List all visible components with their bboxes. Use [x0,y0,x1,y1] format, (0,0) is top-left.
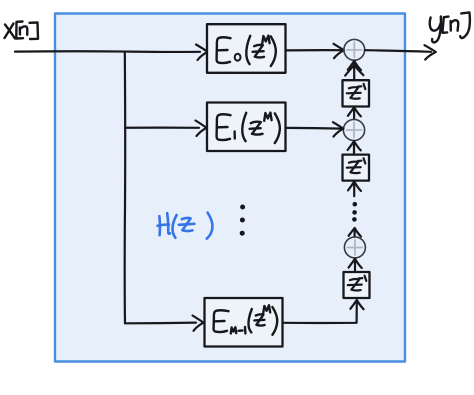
wire E0 to adder1 [286,44,344,58]
adder2 [343,119,364,140]
text E1(z^M) [217,113,280,143]
wire box3 to adder3 with arrowhead [349,259,362,272]
wire adder2 to box1 with arrowhead [348,107,361,119]
wire branch to EM-1 [125,316,204,331]
delay z-1 box1 [343,80,370,106]
wire box1 to adder1 with arrowhead [345,61,363,80]
text z-1 box2 [347,158,366,173]
block EM-1(z^M) box [205,298,283,347]
label H(z) blue [158,213,213,239]
ellipsis dots center [240,205,245,236]
wire EM-1 to box3 with arrowhead [283,300,364,323]
delay z-1 box2 [343,155,370,181]
text E0(z^M) [217,36,276,66]
ellipsis dots right column [352,202,357,222]
label y[n] [430,12,470,42]
wire box2 to adder2 with arrowhead [348,141,361,154]
wire E1 to adder2 [286,122,344,136]
arrowhead into E0 [196,45,208,61]
wire branch to E1 [125,121,207,137]
block E0(z^M) box [207,24,286,73]
label x[n] [5,22,39,40]
adder1 [344,39,365,60]
block E1(z^M) box [207,103,286,152]
delay z-1 box3 [344,272,370,298]
text z-1 box3 [348,276,367,291]
adder3 [344,237,365,258]
system boundary rectangle H(z) [55,14,405,362]
wire up into box2 with arrowhead [348,182,361,197]
output wire adder1 to y[n] [365,45,436,59]
text z-1 box1 [347,84,366,99]
branch vertical wire [124,52,127,323]
input wire x[n] to E0 [15,50,200,53]
text EM-1(z^M) [214,305,278,335]
short arrow up from adder3 [349,228,361,237]
